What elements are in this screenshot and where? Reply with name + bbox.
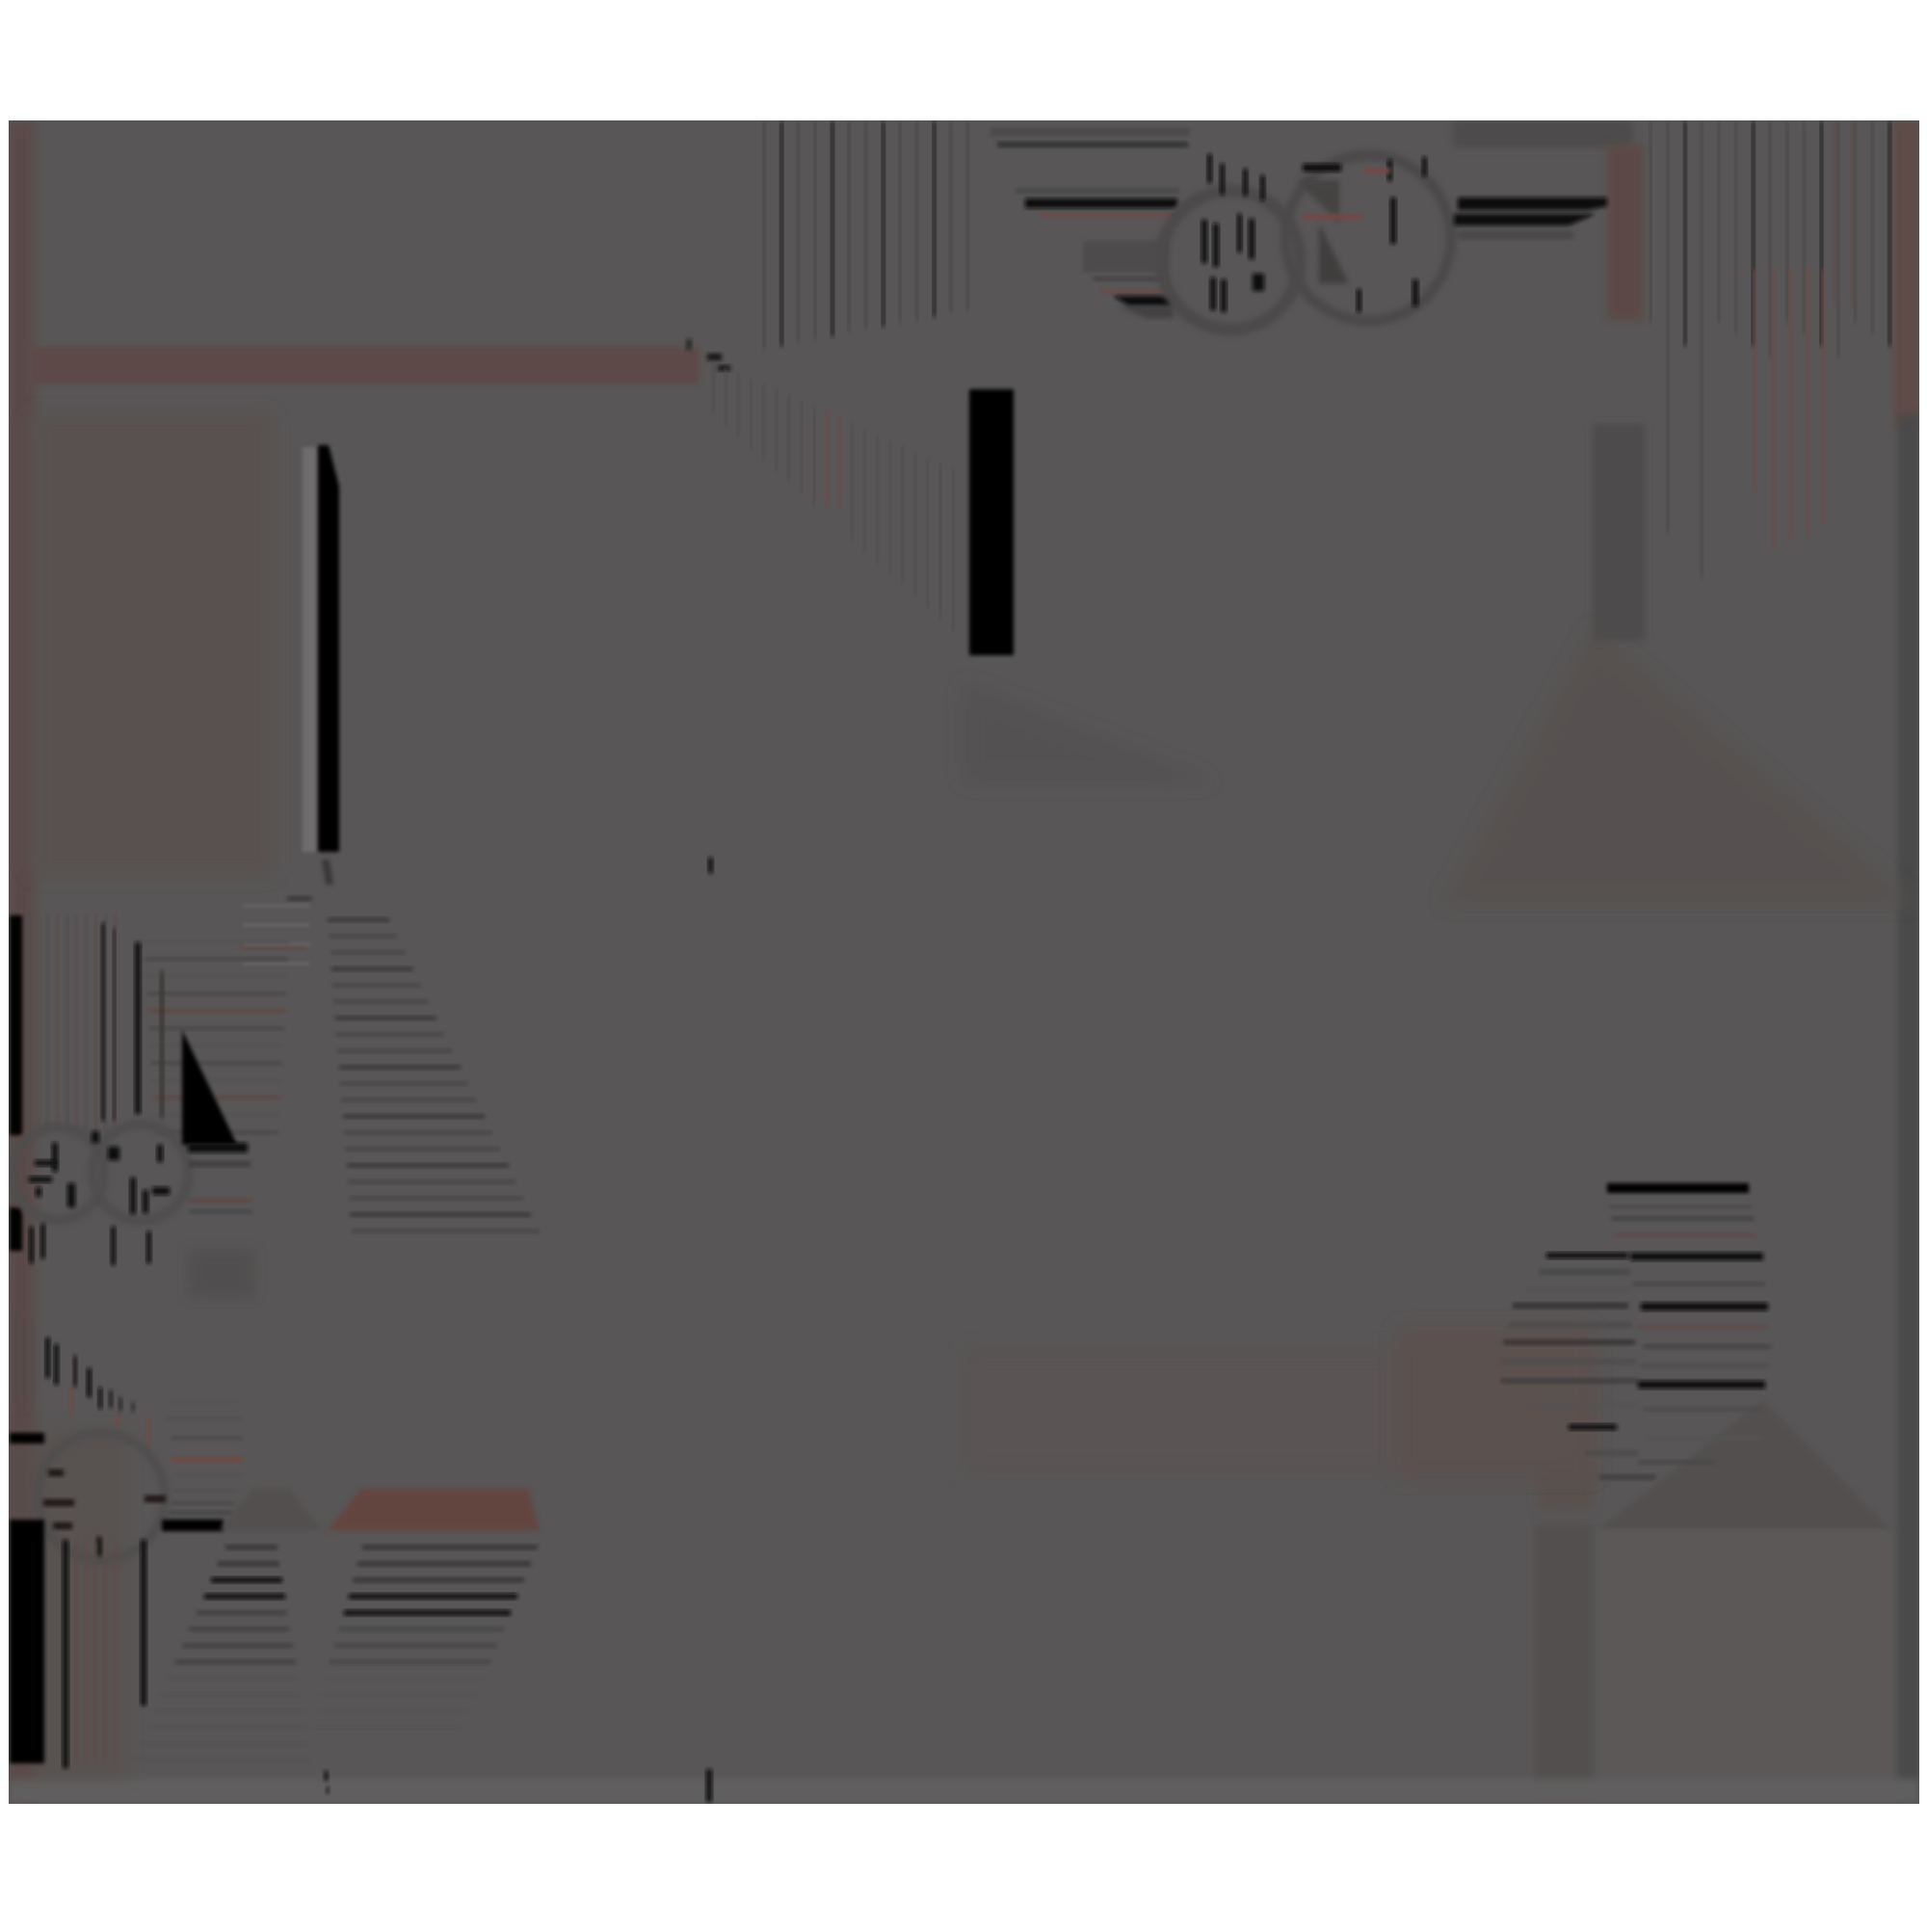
black thick line right 2 xyxy=(1454,214,1596,225)
black dash bottom-left xyxy=(10,1433,44,1443)
top-right dark strip xyxy=(1453,120,1633,147)
bottom right feather wedge left xyxy=(1546,1253,1628,1258)
tiny tick bottom left 2 xyxy=(326,1786,330,1794)
gray bar above rings xyxy=(990,128,1190,136)
maroon roof band xyxy=(328,1489,540,1530)
dark stripe in cluster xyxy=(113,928,116,1121)
gray block xyxy=(1083,241,1169,273)
gray bar 3 xyxy=(1016,188,1179,194)
brown vertical band top-right xyxy=(1607,145,1644,320)
large ring right xyxy=(1285,155,1451,321)
warm trapezoid xyxy=(1397,1328,1595,1476)
small ring right xyxy=(92,1125,189,1221)
gray bar 5 xyxy=(1094,277,1169,281)
gray roof trapezoid xyxy=(220,1489,323,1530)
tiny tick bottom left xyxy=(324,1771,329,1781)
maroon thin line xyxy=(1041,213,1174,217)
black dash near band end xyxy=(707,354,722,360)
soft dark trapezoid below xyxy=(189,1251,254,1297)
tall black bar left-center xyxy=(318,445,339,852)
hatch wedge right of tall bar xyxy=(287,896,312,901)
brownish field bottom-left xyxy=(9,1433,125,1778)
light body under roof xyxy=(1597,1530,1891,1800)
left brown border stripe xyxy=(9,120,34,1804)
warm band bottom-middle xyxy=(963,1349,1595,1476)
faint maroon lines far right xyxy=(1834,121,1836,304)
light bottom strip xyxy=(9,1779,1919,1804)
black line under triangle xyxy=(188,1143,248,1152)
maroon accents in right comb xyxy=(1754,270,1756,491)
thin dark line xyxy=(160,971,164,1118)
maroon dash 2 in right ring xyxy=(1363,168,1390,173)
red line under triangle xyxy=(187,1198,252,1203)
gray line under triangle xyxy=(189,1161,251,1167)
large ring left xyxy=(1161,191,1300,330)
small ring left xyxy=(12,1127,104,1220)
black vertical line 2 bottom-left xyxy=(141,1540,146,1706)
soft dark triangle mid xyxy=(963,683,1214,782)
soft mountain triangle xyxy=(1442,628,1917,904)
small tick under tall bar xyxy=(322,860,333,885)
ticks in small rings xyxy=(52,1143,58,1172)
tiny tick left of band end xyxy=(686,339,692,350)
light stripe beside tall bar xyxy=(303,447,318,852)
tiny tick bottom middle xyxy=(706,1769,712,1802)
black bar 6 xyxy=(1113,296,1174,306)
ticks in big bottom ring xyxy=(48,1469,64,1476)
black dash near band end 2 xyxy=(718,365,730,371)
left edge black bar segment 2 xyxy=(10,1207,22,1251)
dark vertical band above mountain xyxy=(1593,424,1645,641)
dark column left of house xyxy=(1535,1524,1592,1800)
brownish field upper-left xyxy=(32,414,273,875)
light gray short lines left of wedge xyxy=(243,904,310,908)
ticks inside right ring xyxy=(1387,160,1392,181)
maroon dash in right ring xyxy=(1303,214,1362,220)
strong black line xyxy=(135,942,141,1114)
left edge black bar segment 1 xyxy=(10,915,22,1135)
tall black bar center xyxy=(969,389,1014,655)
ticks inside left ring xyxy=(1207,154,1212,183)
dark roof triangle bottom-right xyxy=(1597,1400,1891,1530)
maroon thin verticals bottom-left xyxy=(75,1542,78,1763)
right dark border xyxy=(1898,414,1919,1802)
hatch lines left of pennant triangle xyxy=(145,940,289,944)
lower middle comb of vertical lines xyxy=(712,361,714,414)
tick row under small rings xyxy=(29,1227,34,1263)
black vertical line bottom-left xyxy=(63,1540,68,1768)
black bar 4 xyxy=(1025,198,1177,208)
tiny tick upper middle xyxy=(708,858,713,873)
dark pie wedge in right ring xyxy=(1319,224,1349,283)
descending tick cascade xyxy=(14,1310,17,1397)
big bottom-left ring xyxy=(38,1433,165,1560)
gray line 2 under triangle xyxy=(189,1209,252,1214)
dark bar 2 xyxy=(997,142,1188,147)
black rectangle bottom-left xyxy=(10,1520,44,1763)
brown horizontal band xyxy=(32,347,699,384)
red hatch line xyxy=(241,944,306,949)
black stripe in cluster xyxy=(101,923,105,1121)
right comb of vertical lines xyxy=(1650,121,1651,323)
soft dark line right 3 xyxy=(1458,231,1573,239)
bottom middle hatch stack xyxy=(362,1545,538,1550)
small line stack above roof xyxy=(166,1399,241,1404)
warm patch left of roof xyxy=(1539,1388,1592,1508)
dark wedge in right ring top xyxy=(1297,180,1339,224)
bottom right feather wedge right xyxy=(1607,1183,1749,1193)
maroon thin line 2 xyxy=(1101,289,1171,293)
black thick line right 1 xyxy=(1458,198,1607,210)
black pennant triangle xyxy=(182,1030,237,1145)
bottom left hatch stack xyxy=(225,1545,277,1550)
upper middle comb of vertical lines xyxy=(763,121,765,349)
shadow under black bar 6 xyxy=(1118,306,1174,318)
right brown border top xyxy=(1894,120,1919,429)
thin vertical stripe cluster left xyxy=(27,915,30,1132)
black thick line above stack xyxy=(162,1520,224,1531)
